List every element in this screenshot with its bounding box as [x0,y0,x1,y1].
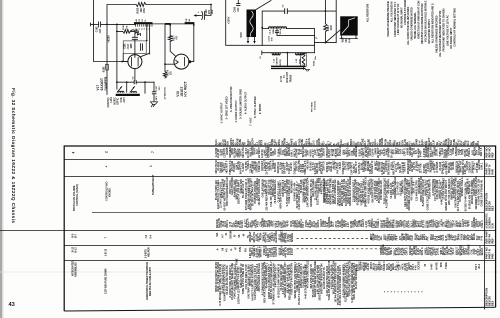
svg-text:27K: 27K [126,25,128,29]
svg-text:B-: B- [234,234,237,237]
svg-text:55-: 55- [348,142,350,146]
capacitor C163 [194,5,215,20]
svg-text:DE5: DE5 [491,300,495,306]
svg-text:22-3: 22-3 [313,140,315,145]
label +625V [106,35,110,43]
svg-text:(C: (C [316,36,318,39]
label +130V [226,16,230,24]
page number 43 [9,302,15,308]
svg-text:WW 7.5: WW 7.5 [480,147,483,156]
page left edge shadow [0,0,2,318]
svg-text:R184: R184 [327,25,330,31]
svg-text:(19Z22Q): (19Z22Q) [108,97,110,107]
svg-text:3- VIDEO DETECTOR: 3- VIDEO DETECTOR [229,86,233,112]
svg-text:1B3GT-: 1B3GT- [481,247,484,255]
svg-text:CONE CR IF TRAN5 HV: CONE CR IF TRAN5 HV [481,179,484,206]
test points list [220,86,262,126]
resistor R182 [136,2,146,13]
capacitor C166 [132,76,136,84]
svg-text:FLY: FLY [296,141,298,146]
svg-text:SPK: SPK [440,262,443,267]
table row E left labels [72,246,151,258]
efficiency coil assembly [116,82,145,95]
table row E dense text [216,244,484,258]
svg-text:C167: C167 [156,85,158,91]
svg-text:Fig. 32 Schematic Diagram 19Z: Fig. 32 Schematic Diagram 19Z22 & 19Z22Q… [11,88,16,223]
svg-text:1-B-12: 1-B-12 [105,248,108,256]
svg-text:6.8K 1: 6.8K 1 [480,162,483,170]
svg-text:WIDTH: WIDTH [277,57,279,65]
svg-text:PIN VIEW: PIN VIEW [312,101,314,112]
grid network box [123,41,146,62]
svg-text:240V: 240V [123,97,126,103]
svg-text:A55EMBLIE5: A55EMBLIE5 [75,262,78,277]
svg-text:A-: A- [216,248,219,251]
label 2V boost column [165,87,167,100]
svg-text:TUBELE55 RECT: TUBELE55 RECT [152,174,155,195]
svg-text:6-447: 6-447 [431,263,434,270]
coil L20 hor lin [296,53,305,65]
svg-text:A-: A- [230,248,233,251]
svg-text:21-7: 21-7 [365,140,367,145]
svg-text:FROM POINT INDICATED TO CHA55I: FROM POINT INDICATED TO CHA55I5 [442,8,445,52]
tube V17 6AX4GT damper [122,53,150,80]
figure caption sidebar [11,88,16,223]
svg-text:100K: 100K [331,25,333,31]
svg-text:L181: L181 [111,97,113,103]
tube V16 1B3GT HV rect [164,54,191,69]
svg-text:YOKE: YOKE [445,262,448,269]
capacitor C167 [152,82,161,102]
svg-text:+130V: +130V [226,16,230,24]
svg-text:DE5: DE5 [491,205,495,211]
capacitor C164 [267,29,279,42]
table header column [484,147,494,306]
svg-text:MI: MI [221,247,224,250]
svg-text:+: + [105,166,109,168]
svg-text:C164: C164 [267,35,270,41]
svg-text:REF: REF [491,238,495,244]
svg-text:GROM: GROM [230,231,233,238]
resistor R180 [130,29,141,36]
svg-text:9- B005T: 9- B005T [258,103,262,114]
svg-text:HELPER: HELPER [148,247,151,257]
svg-text:WAS: WAS [450,139,453,145]
resistor R183 network [301,53,316,71]
wire bus to V16 filament [164,24,166,70]
svg-text:SPRING: SPRING [291,233,294,242]
svg-text:KNOB5: KNOB5 [109,188,112,197]
svg-text:GROM: GROM [382,138,384,145]
svg-text:REF: REF [491,152,495,158]
waveform W16 [325,16,357,42]
coil L19 width [272,53,282,67]
svg-text:55-1: 55-1 [478,140,480,145]
svg-text:1- 5YNC OUTPUT: 1- 5YNC OUTPUT [220,102,224,123]
svg-text:L2-A: L2-A [269,29,272,34]
svg-text:7: 7 [151,151,155,153]
wire boost top run [106,4,212,26]
capacitor C161 [132,31,138,54]
svg-text:40-4: 40-4 [478,263,481,268]
parts table frame [64,146,495,311]
flyback transformer winding [134,18,194,54]
svg-text:2: 2 [105,151,109,153]
svg-text:4- HORIZ OUTPUT: 4- HORIZ OUTPUT [234,100,238,123]
label L181 horiz efficiency coil [108,96,126,107]
table overhang labels above frame [215,137,480,145]
svg-text:47-53: 47-53 [280,75,283,82]
label T4 hor output trans [280,71,293,82]
resistor R179 [163,69,172,78]
boost line horizontal [116,81,154,83]
svg-text:B-13: B-13 [75,247,78,253]
ground (C167) [150,102,157,107]
svg-text:R180: R180 [138,29,140,35]
yoke horizontal coil L2-A [262,27,314,35]
table row F dense text [215,258,481,306]
svg-text:CONTROL (19Z22): CONTROL (19Z22) [76,184,79,206]
svg-text:ION: ION [227,141,229,145]
table row A dense text [215,144,483,158]
svg-text:PAR: PAR [491,169,495,175]
svg-text:TRAN5: TRAN5 [289,74,292,82]
transformer T4 core [271,53,306,69]
capacitor C2 [283,4,288,14]
svg-text:W15: W15 [240,32,243,38]
svg-text:16MH: 16MH [273,28,275,34]
svg-text:2- GRID 15T VIDEO: 2- GRID 15T VIDEO [224,96,228,119]
svg-text:WA: WA [216,232,219,236]
table row D left labels [72,233,153,239]
svg-text:95-: 95- [238,234,241,238]
svg-text:ALL RE5I5TOR5: ALL RE5I5TOR5 [367,3,370,22]
wire V16 plate to bus [191,24,195,62]
svg-text:1KV: 1KV [131,44,133,49]
svg-text:9-76: 9-76 [480,235,483,240]
svg-text:COIL 0: COIL 0 [481,220,484,228]
svg-text:5CH: 5CH [491,223,495,228]
svg-text:R179: R179 [168,69,170,75]
wire +130V feed [226,0,315,45]
width/linearity rail [259,51,317,60]
svg-text:9-76 P: 9-76 P [291,248,294,255]
svg-text:1KV: 1KV [211,9,214,14]
svg-text:R181: R181 [123,24,125,30]
svg-text:SOCKE: SOCKE [418,261,421,270]
svg-text:20-2: 20-2 [468,140,470,145]
svg-text:T4 LUG5: T4 LUG5 [314,100,317,110]
table row B dense text [215,159,483,175]
svg-text:.0047: .0047 [127,43,130,49]
svg-text:HORIZ: HORIZ [114,97,116,105]
svg-text:PIX: PIX [245,248,248,252]
svg-text:B182: B182 [103,66,106,72]
svg-text:R177: R177 [174,35,176,41]
svg-text:78-: 78- [245,142,247,146]
table row D dense text [216,229,483,243]
waveform W15 [240,1,271,44]
svg-text:HOR OUT: HOR OUT [287,71,289,82]
svg-text:HV RE: HV RE [436,262,439,270]
svg-text:CONTROL5 AT NORMAL 5ETTING: CONTROL5 AT NORMAL 5ETTING [453,8,456,47]
svg-text:5A: 5A [188,19,191,22]
svg-text:C165: C165 [235,6,237,12]
svg-text:1: 1 [149,165,153,167]
svg-text:DAMPER: DAMPER [104,76,108,91]
wire to V16 plate supply [169,24,171,35]
resistor R177 [168,35,178,42]
svg-text:PU: PU [331,142,333,146]
capacitor C165 [235,0,241,12]
svg-text:8- 5YNC CLIPPER: 8- 5YNC CLIPPER [253,96,257,118]
svg-text:CLIP: CLIP [434,139,436,145]
resistor R184 [324,0,333,43]
label pin view [312,100,317,112]
svg-text:CR: CR [186,18,188,22]
wire boost node vertical [116,24,118,83]
fuse B182 [103,24,109,94]
wire R177 to V16 [170,42,176,57]
table row C left labels [73,174,155,211]
margin rule [0,230,64,232]
svg-text:MICA: MICA [278,139,281,145]
table row B left labels [105,165,154,168]
svg-text:W5-A: W5-A [279,28,282,34]
yoke box top [261,10,336,45]
label V17 [96,76,108,91]
yoke box mid line [277,29,318,53]
svg-text:COIL: COIL [121,96,123,102]
svg-text:4KV: 4KV [155,96,158,101]
table row C dense text lower [216,216,484,228]
svg-text:7- AGC: 7- AGC [248,117,252,126]
svg-text:PUS: PUS [239,247,242,252]
svg-text:1327-B60 FU5E 250MA: 1327-B60 FU5E 250MA [105,268,108,294]
svg-text:%: % [145,20,147,22]
svg-text:P-P: P-P [348,38,351,42]
wire W1 left vertical [93,0,128,62]
svg-text:43: 43 [9,302,15,308]
svg-text:B-7: B-7 [75,233,78,238]
svg-text:-2V (BOO5T): -2V (BOO5T) [165,87,167,100]
svg-text:5- 5OUND LIMITER GRID: 5- 5OUND LIMITER GRID [239,89,243,119]
svg-text:ALL RE5I5TOR5 INDICATED ARE 1/: ALL RE5I5TOR5 INDICATED ARE 1/ [432,3,435,43]
table row C dense text upper [215,176,484,211]
table row F left labels [72,260,153,300]
wire +625V horizontal [91,23,136,26]
svg-text:R183: R183 [314,60,316,66]
svg-text:.022: .022 [238,7,240,12]
svg-text:PAR: PAR [491,253,495,259]
wire right rail [314,0,336,43]
notes text block [367,0,457,57]
svg-text:C161: C161 [125,43,127,49]
svg-text:H.V. RECT: H.V. RECT [184,81,188,97]
svg-text:6- AUDIO OUTPUT: 6- AUDIO OUTPUT [244,91,248,114]
svg-text:SPKR: SPKR [416,138,418,145]
svg-text:EFFIC: EFFIC [118,98,120,105]
faint scan line [0,271,500,273]
capacitor C162 [96,22,102,34]
svg-text:MER PUL5E CABLE A55Y: MER PUL5E CABLE A55Y [149,266,152,296]
resistor R181 [117,24,135,33]
table row A left labels [72,151,156,154]
label V16 [176,81,188,97]
svg-text:WA: WA [398,141,401,145]
svg-text:.047: .047 [99,28,102,33]
svg-text:600V: 600V [262,139,264,145]
svg-text:4: 4 [72,152,76,154]
